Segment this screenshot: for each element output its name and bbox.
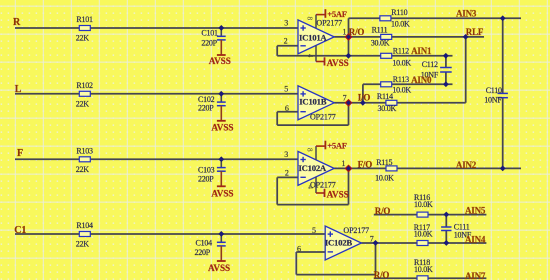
svg-text:8: 8 (306, 17, 314, 21)
svg-text:C112: C112 (422, 60, 438, 69)
svg-text:AIN0: AIN0 (411, 75, 432, 85)
svg-text:AVSS: AVSS (209, 56, 231, 66)
svg-text:1: 1 (342, 159, 346, 168)
svg-text:R/O: R/O (349, 27, 365, 37)
svg-text:R103: R103 (76, 146, 93, 155)
svg-text:OP2177: OP2177 (310, 113, 336, 122)
svg-text:30.0K: 30.0K (378, 104, 397, 113)
svg-text:5: 5 (284, 85, 288, 94)
svg-text:22K: 22K (76, 165, 90, 174)
svg-text:IC102A: IC102A (299, 163, 327, 173)
svg-text:F/O: F/O (358, 160, 373, 170)
svg-text:R114: R114 (377, 92, 393, 101)
svg-text:IC102B: IC102B (325, 237, 352, 247)
svg-text:+5AF: +5AF (327, 141, 346, 151)
svg-text:R102: R102 (76, 81, 93, 90)
svg-text:220P: 220P (198, 174, 214, 183)
svg-text:R/O: R/O (374, 270, 390, 280)
svg-text:IC101B: IC101B (299, 97, 326, 107)
svg-text:C101: C101 (201, 28, 218, 37)
svg-text:7: 7 (343, 93, 347, 102)
svg-text:F: F (17, 148, 23, 159)
svg-text:AIN7: AIN7 (465, 271, 486, 280)
svg-text:10.0K: 10.0K (414, 200, 433, 209)
svg-text:30.0K: 30.0K (371, 39, 390, 48)
svg-text:R/O: R/O (375, 206, 391, 216)
svg-text:R104: R104 (76, 221, 93, 230)
svg-text:10.0K: 10.0K (414, 265, 433, 274)
svg-text:R: R (13, 17, 21, 28)
svg-text:220P: 220P (195, 248, 211, 257)
svg-text:AIN3: AIN3 (456, 8, 477, 18)
svg-text:220P: 220P (198, 104, 214, 113)
svg-text:2: 2 (284, 37, 288, 46)
svg-text:AVSS: AVSS (208, 263, 230, 273)
svg-text:C104: C104 (196, 239, 213, 248)
svg-text:C1: C1 (14, 225, 26, 236)
svg-text:R115: R115 (376, 158, 392, 167)
svg-text:6: 6 (297, 245, 301, 254)
svg-text:3: 3 (284, 150, 288, 159)
svg-text:6: 6 (285, 104, 289, 113)
svg-text:AIN4: AIN4 (465, 235, 486, 245)
svg-text:22K: 22K (76, 100, 90, 109)
svg-text:22K: 22K (76, 34, 90, 43)
svg-text:RLF: RLF (466, 27, 484, 37)
svg-text:4: 4 (306, 54, 314, 58)
svg-text:8: 8 (306, 148, 314, 152)
svg-text:OP2177: OP2177 (343, 226, 369, 235)
svg-text:22K: 22K (76, 240, 90, 249)
svg-text:OP2177: OP2177 (316, 19, 342, 28)
svg-text:I/O: I/O (358, 93, 371, 103)
svg-text:220P: 220P (201, 39, 217, 48)
svg-text:+5AF: +5AF (327, 9, 346, 19)
svg-text:IC101A: IC101A (299, 33, 327, 43)
svg-text:R111: R111 (372, 26, 388, 35)
svg-text:7: 7 (370, 234, 374, 243)
svg-text:4: 4 (306, 185, 314, 189)
svg-text:2: 2 (285, 169, 289, 178)
svg-text:10.0K: 10.0K (392, 86, 411, 95)
svg-text:C110: C110 (486, 86, 502, 95)
svg-text:AVSS: AVSS (327, 58, 349, 68)
svg-text:R112: R112 (393, 47, 409, 56)
svg-text:R101: R101 (76, 15, 93, 24)
svg-text:10NF: 10NF (484, 95, 502, 104)
svg-text:5: 5 (312, 226, 316, 235)
svg-text:AVSS: AVSS (327, 189, 349, 199)
svg-text:AVSS: AVSS (211, 122, 233, 132)
svg-text:AIN1: AIN1 (411, 46, 432, 56)
svg-text:AIN2: AIN2 (456, 160, 477, 170)
svg-text:10.0K: 10.0K (375, 173, 394, 182)
svg-text:C103: C103 (198, 165, 215, 174)
svg-text:AVSS: AVSS (211, 188, 233, 198)
svg-text:3: 3 (284, 19, 288, 28)
svg-text:10.0K: 10.0K (414, 230, 433, 239)
svg-text:AIN5: AIN5 (465, 206, 486, 216)
svg-text:L: L (15, 84, 22, 95)
svg-text:1: 1 (343, 27, 347, 36)
svg-text:10.0K: 10.0K (391, 20, 410, 29)
svg-text:R113: R113 (393, 75, 409, 84)
svg-text:R110: R110 (391, 8, 407, 17)
svg-text:10.0K: 10.0K (392, 58, 411, 67)
